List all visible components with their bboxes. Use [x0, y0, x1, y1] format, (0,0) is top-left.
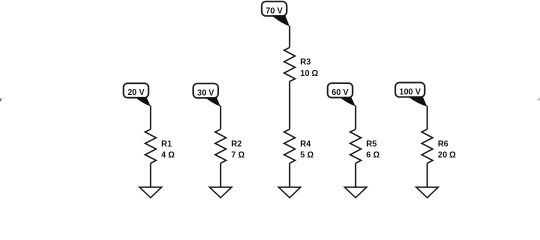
svg-text:20 V: 20 V [128, 88, 145, 97]
svg-text:100 V: 100 V [399, 88, 421, 97]
resistor R5 [350, 129, 380, 163]
ground branch5 [416, 187, 438, 198]
svg-text:R4: R4 [300, 139, 311, 148]
resistor R6 [422, 129, 457, 163]
svg-text:30 V: 30 V [197, 88, 214, 97]
svg-text:70 V: 70 V [266, 6, 283, 15]
svg-text:R3: R3 [300, 58, 311, 67]
svg-text:7 Ω: 7 Ω [231, 151, 245, 160]
voltage source label 60 V [328, 83, 356, 106]
wire node70 to R3 [289, 26, 291, 48]
wire node20 to R1 [150, 106, 152, 130]
voltage source label 70 V [262, 2, 290, 27]
svg-text:4 Ω: 4 Ω [161, 151, 175, 160]
svg-text:R5: R5 [366, 139, 377, 148]
svg-text:5 Ω: 5 Ω [300, 151, 314, 160]
wire node100 to R6 [426, 106, 428, 129]
voltage source label 20 V [124, 83, 151, 106]
svg-text:20 Ω: 20 Ω [438, 151, 456, 160]
wire R3 to R4 [289, 82, 291, 130]
voltage source label 100 V [395, 83, 427, 107]
svg-text:10 Ω: 10 Ω [300, 69, 318, 78]
wire R6 to ground [426, 163, 428, 187]
svg-text:6 Ω: 6 Ω [366, 151, 380, 160]
svg-text:R1: R1 [161, 139, 172, 148]
resistor R2 [215, 129, 245, 163]
svg-text:R2: R2 [231, 139, 242, 148]
cropped fragment right edge [537, 98, 540, 102]
svg-text:60 V: 60 V [332, 88, 349, 97]
ground branch4 [345, 187, 367, 198]
svg-text:R6: R6 [438, 139, 449, 148]
resistor R1 [145, 129, 175, 163]
ground branch1 [140, 187, 162, 198]
wire node30 to R2 [220, 106, 222, 130]
wire node60 to R5 [355, 105, 357, 129]
voltage source label 30 V [193, 84, 220, 107]
wire R5 to ground [355, 163, 357, 187]
cropped pointer fragment left edge [0, 98, 2, 101]
resistor R3 [284, 48, 319, 82]
wire R1 to ground [150, 163, 152, 187]
resistor R4 [284, 129, 314, 163]
wire R2 to ground [220, 163, 222, 187]
ground branch3 [279, 187, 301, 198]
wire R4 to ground [289, 163, 291, 187]
ground branch2 [210, 187, 232, 198]
